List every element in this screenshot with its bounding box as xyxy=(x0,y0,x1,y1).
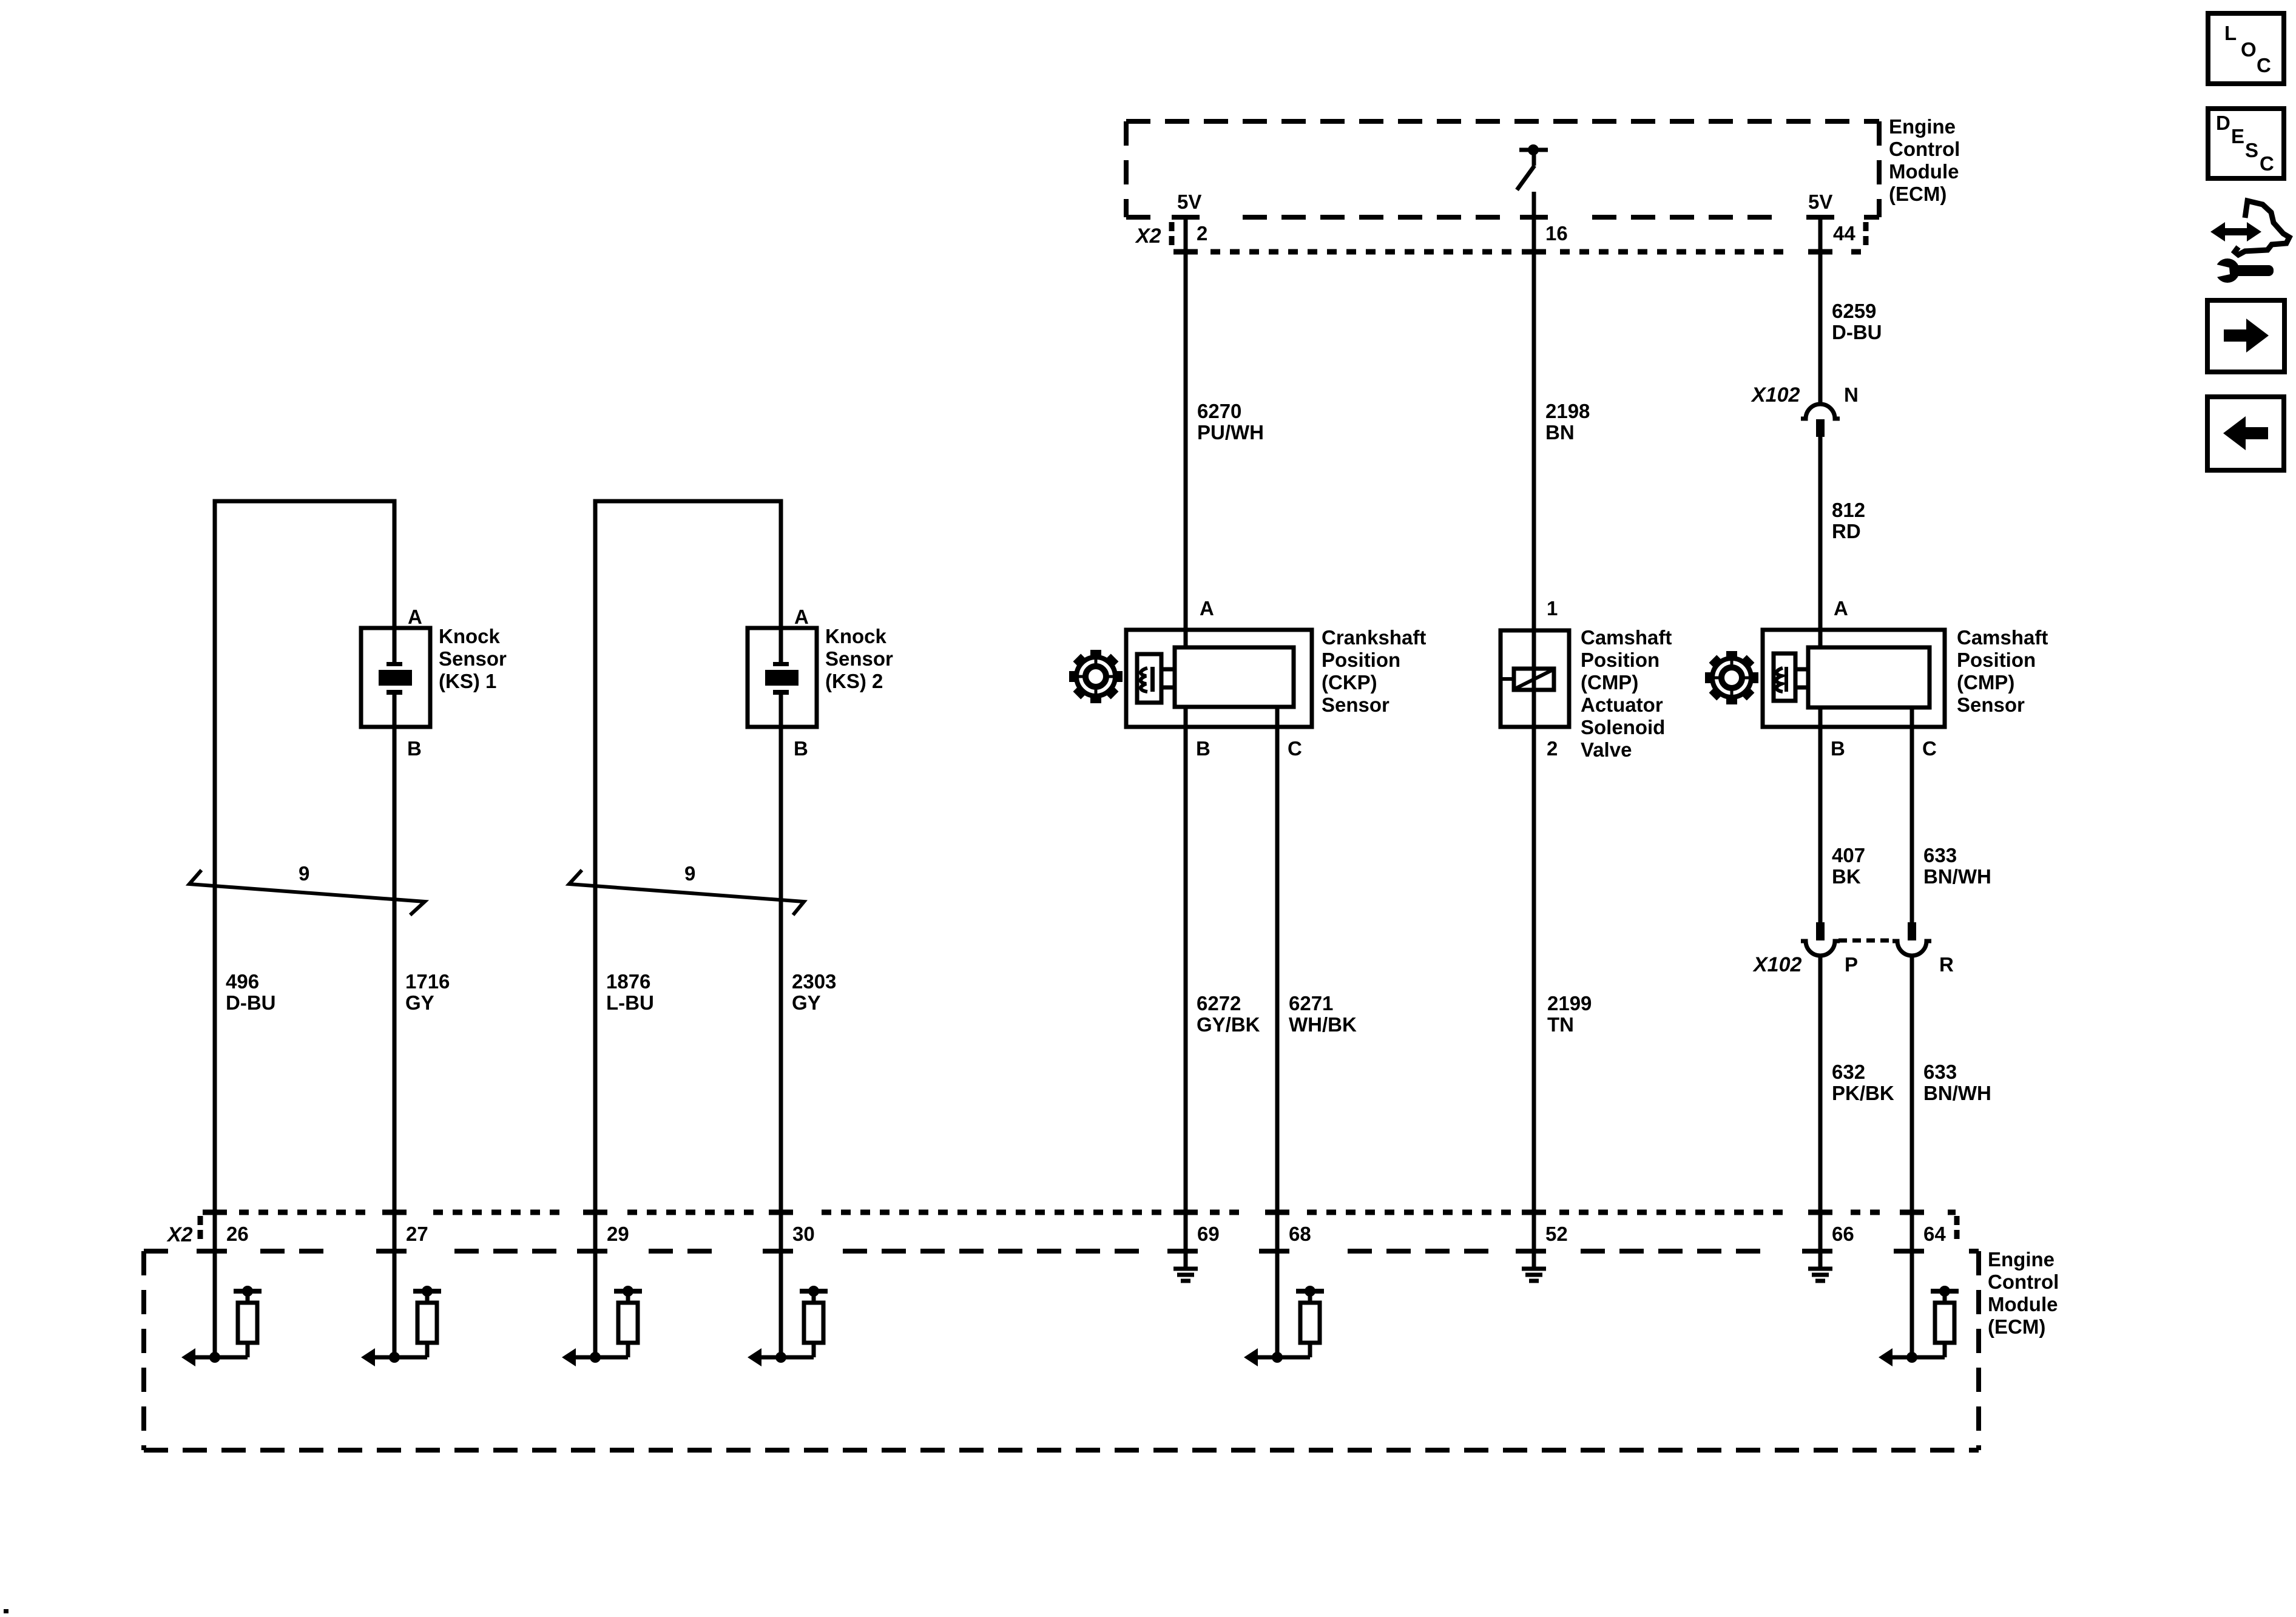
ECM (Engine Control Module) bottom dashed box xyxy=(144,1249,168,1254)
svg-text:A: A xyxy=(794,606,809,628)
svg-text:5V: 5V xyxy=(1808,191,1832,213)
adjust/hand-wrench icon xyxy=(2210,222,2261,241)
wire into ECM at x=354 xyxy=(213,1212,217,1357)
svg-text:16: 16 xyxy=(1545,222,1568,245)
svg-text:5V: 5V xyxy=(1177,191,1201,213)
wire into ECM at x=650 xyxy=(393,1212,397,1357)
svg-text:PK/BK: PK/BK xyxy=(1832,1082,1894,1104)
svg-text:633: 633 xyxy=(1923,1061,1957,1083)
svg-text:Engine: Engine xyxy=(1988,1248,2055,1271)
svg-text:B: B xyxy=(1831,737,1845,760)
svg-text:Valve: Valve xyxy=(1581,738,1632,761)
ECM internal resistor + signal arrow (wire x=650) xyxy=(361,1286,441,1366)
CKP pickup element xyxy=(1137,654,1161,703)
svg-text:2303: 2303 xyxy=(792,970,836,993)
svg-text:29: 29 xyxy=(607,1223,629,1245)
in-line connector X102 pin P xyxy=(1816,922,1825,940)
ground (ECM internal) at x=1954 xyxy=(1173,1269,1198,1281)
CKP pickup squiggle xyxy=(1141,668,1147,692)
wire into ECM at x=3000 xyxy=(1818,1212,1823,1267)
svg-text:GY: GY xyxy=(792,991,821,1014)
svg-text:6271: 6271 xyxy=(1289,992,1333,1014)
page period mark xyxy=(4,1609,8,1613)
svg-text:Control: Control xyxy=(1988,1271,2059,1293)
ECM internal resistor + signal arrow (wire x=1287) xyxy=(748,1286,828,1366)
svg-text:496: 496 xyxy=(226,970,259,993)
wire 2198 BN / 2199 TN (switch to CMP actuator to ECM pin 52) xyxy=(1532,192,1536,1267)
twisted pair symbol (KS2 circuit 9) xyxy=(569,870,804,915)
svg-text:(CMP): (CMP) xyxy=(1581,671,1638,694)
svg-text:X2: X2 xyxy=(1135,224,1161,248)
svg-text:44: 44 xyxy=(1833,222,1855,245)
svg-text:Control: Control xyxy=(1889,138,1960,160)
Camshaft Position (CMP) Sensor outer box xyxy=(1763,630,1945,727)
svg-text:R: R xyxy=(1939,953,1954,976)
wire 6259 D-BU (ECM pin 44 to X102 N) xyxy=(1818,217,1823,405)
svg-text:52: 52 xyxy=(1545,1223,1568,1245)
Knock Sensor (KS) 1 box xyxy=(361,628,430,727)
wire 1716 GY (KS1 B to ECM pin 27) xyxy=(393,695,397,1212)
svg-text:GY/BK: GY/BK xyxy=(1197,1013,1260,1036)
CMP sensor body xyxy=(1808,647,1930,707)
wire 633 BN/WH (X102 R to ECM pin 64) xyxy=(1910,956,1914,1357)
svg-text:(CKP): (CKP) xyxy=(1322,671,1377,694)
svg-text:Position: Position xyxy=(1581,649,1660,671)
svg-text:633: 633 xyxy=(1923,844,1957,866)
svg-text:BN/WH: BN/WH xyxy=(1923,865,1991,888)
CMP pickup stub (lower) xyxy=(1795,686,1808,690)
Camshaft Position (CMP) Actuator Solenoid Valve box xyxy=(1501,630,1569,727)
svg-text:D-BU: D-BU xyxy=(1832,321,1882,343)
svg-text:X102: X102 xyxy=(1752,953,1801,976)
wire 496 D-BU loop (ECM pin 26 to KS1 A) xyxy=(215,501,394,1212)
wire 633 BN/WH (CMP C to X102 R) xyxy=(1910,707,1914,922)
CKP pickup bar xyxy=(1150,667,1155,692)
CKP pickup stub (upper) xyxy=(1161,667,1175,672)
svg-text:6259: 6259 xyxy=(1832,300,1876,322)
svg-text:D: D xyxy=(2216,112,2230,134)
svg-text:Knock: Knock xyxy=(825,625,887,647)
svg-text:26: 26 xyxy=(226,1223,249,1245)
back arrow icon box xyxy=(2207,397,2284,470)
svg-text:1876: 1876 xyxy=(606,970,650,993)
svg-text:9: 9 xyxy=(684,862,695,885)
wire 1876 L-BU loop (ECM pin 29 to KS2 A) xyxy=(595,501,781,1212)
switch (ECM internal driver) for CMP actuator control xyxy=(1519,148,1548,152)
CKP pickup stub (lower) xyxy=(1161,686,1175,690)
svg-text:PU/WH: PU/WH xyxy=(1197,421,1264,444)
X2 connector strip (bottom) xyxy=(198,1216,203,1243)
svg-text:O: O xyxy=(2241,38,2257,61)
CMP pickup bar xyxy=(1784,667,1788,692)
svg-text:GY: GY xyxy=(405,991,434,1014)
svg-text:C: C xyxy=(2257,54,2271,76)
svg-text:Sensor: Sensor xyxy=(1957,694,2025,716)
wire into ECM at x=981 xyxy=(593,1212,598,1357)
svg-text:A: A xyxy=(1834,597,1848,619)
svg-text:A: A xyxy=(1200,597,1214,619)
CMP pickup element xyxy=(1774,653,1795,701)
svg-text:30: 30 xyxy=(792,1223,815,1245)
svg-text:BN: BN xyxy=(1545,421,1575,444)
svg-text:6272: 6272 xyxy=(1197,992,1241,1014)
svg-text:632: 632 xyxy=(1832,1061,1865,1083)
DESC icon box xyxy=(2208,109,2284,178)
wire into ECM at x=2105 xyxy=(1275,1212,1280,1357)
wire into ECM at x=1954 xyxy=(1184,1212,1188,1267)
svg-text:Camshaft: Camshaft xyxy=(1957,626,2048,649)
svg-text:Sensor: Sensor xyxy=(1322,694,1389,716)
svg-text:(CMP): (CMP) xyxy=(1957,671,2014,694)
svg-text:RD: RD xyxy=(1832,520,1861,542)
svg-text:407: 407 xyxy=(1832,844,1865,866)
svg-text:TN: TN xyxy=(1547,1013,1574,1036)
svg-text:812: 812 xyxy=(1832,499,1865,521)
svg-text:L: L xyxy=(2224,22,2237,44)
Knock Sensor (KS) 2 box xyxy=(748,628,817,727)
svg-text:Engine: Engine xyxy=(1889,115,1956,138)
svg-text:Position: Position xyxy=(1957,649,2036,671)
ECM internal resistor + signal arrow (wire x=2105) xyxy=(1244,1286,1324,1366)
svg-text:(ECM): (ECM) xyxy=(1889,183,1947,205)
svg-text:68: 68 xyxy=(1289,1223,1311,1245)
wire into ECM at x=1287 xyxy=(779,1212,783,1357)
svg-text:66: 66 xyxy=(1832,1223,1854,1245)
svg-text:1: 1 xyxy=(1547,597,1558,619)
wire 407 BK (CMP B to X102 P) xyxy=(1818,707,1823,922)
svg-text:WH/BK: WH/BK xyxy=(1289,1013,1357,1036)
svg-text:C: C xyxy=(1288,737,1302,760)
forward arrow icon box xyxy=(2207,300,2284,372)
svg-text:Knock: Knock xyxy=(439,625,501,647)
svg-text:C: C xyxy=(2260,152,2274,175)
svg-text:Crankshaft: Crankshaft xyxy=(1322,626,1426,649)
svg-text:69: 69 xyxy=(1197,1223,1220,1245)
Crankshaft Position (CKP) Sensor outer box xyxy=(1126,630,1312,727)
svg-text:(KS) 1: (KS) 1 xyxy=(439,670,496,692)
svg-text:Actuator: Actuator xyxy=(1581,694,1663,716)
svg-text:Sensor: Sensor xyxy=(825,647,893,670)
solenoid valve symbol xyxy=(1514,669,1554,690)
wire 6270 PU/WH (ECM pin 2 to CKP sensor A) xyxy=(1184,217,1188,649)
ground (ECM internal) at x=3000 xyxy=(1808,1269,1832,1281)
svg-text:64: 64 xyxy=(1923,1223,1946,1245)
svg-text:P: P xyxy=(1845,953,1858,976)
svg-text:X102: X102 xyxy=(1751,383,1800,407)
wire 632 PK/BK (X102 P to ECM pin 66) xyxy=(1818,956,1823,1267)
in-line connector X102 pin N xyxy=(1801,404,1840,419)
wire into ECM at x=3151 xyxy=(1910,1212,1914,1357)
twisted pair symbol (KS1 circuit 9) xyxy=(189,870,425,915)
ECM (Engine Control Module) top dashed box xyxy=(1126,119,1879,124)
svg-text:Module: Module xyxy=(1988,1293,2058,1315)
svg-text:BK: BK xyxy=(1832,865,1861,888)
svg-text:B: B xyxy=(1196,737,1210,760)
wire 812 RD (X102 N to CMP sensor A) xyxy=(1818,437,1823,649)
ECM internal resistor + signal arrow (wire x=981) xyxy=(562,1286,642,1366)
ECM internal resistor + signal arrow (wire x=3151) xyxy=(1879,1286,1959,1366)
KS2 piezo element xyxy=(765,662,799,695)
svg-text:S: S xyxy=(2245,139,2258,161)
ECM internal resistor + signal arrow (wire x=354) xyxy=(181,1286,262,1366)
svg-text:BN/WH: BN/WH xyxy=(1923,1082,1991,1104)
svg-text:2198: 2198 xyxy=(1545,400,1590,422)
svg-text:X2: X2 xyxy=(166,1223,193,1246)
svg-text:27: 27 xyxy=(406,1223,428,1245)
gear icon (crankshaft reluctor wheel) xyxy=(1069,650,1123,703)
svg-text:6270: 6270 xyxy=(1197,400,1241,422)
svg-text:Sensor: Sensor xyxy=(439,647,507,670)
X2 connector strip (top) xyxy=(1169,222,1175,249)
svg-text:C: C xyxy=(1922,737,1937,760)
in-line connector X102 pin R xyxy=(1908,922,1916,940)
gear icon (camshaft reluctor wheel) xyxy=(1705,651,1758,704)
CKP sensor body xyxy=(1175,647,1294,707)
svg-text:(ECM): (ECM) xyxy=(1988,1315,2045,1338)
LOC icon box xyxy=(2208,13,2284,84)
svg-text:1716: 1716 xyxy=(405,970,450,993)
ground (ECM internal) at x=2528 xyxy=(1522,1269,1546,1281)
svg-text:(KS) 2: (KS) 2 xyxy=(825,670,883,692)
CMP pickup squiggle xyxy=(1777,668,1783,692)
svg-text:Camshaft: Camshaft xyxy=(1581,626,1672,649)
svg-text:2: 2 xyxy=(1197,222,1207,245)
svg-text:B: B xyxy=(794,737,808,760)
wire 2303 GY (KS2 B to ECM pin 30) xyxy=(779,695,783,1212)
svg-text:D-BU: D-BU xyxy=(226,991,275,1014)
KS1 piezo element xyxy=(379,662,412,695)
svg-text:2: 2 xyxy=(1547,737,1558,760)
wire 6271 WH/BK (CKP C to ECM pin 68) xyxy=(1275,707,1280,1357)
svg-text:L-BU: L-BU xyxy=(606,991,654,1014)
CMP pickup stub (upper) xyxy=(1795,667,1808,672)
svg-text:E: E xyxy=(2231,125,2244,147)
svg-text:Position: Position xyxy=(1322,649,1400,671)
svg-text:B: B xyxy=(407,737,422,760)
svg-text:Solenoid: Solenoid xyxy=(1581,716,1665,738)
svg-text:Module: Module xyxy=(1889,160,1959,183)
wire 6272 GY/BK (CKP B to ECM pin 69) xyxy=(1184,707,1188,1267)
X102 connector tie line xyxy=(1838,939,1894,943)
svg-text:N: N xyxy=(1844,383,1859,406)
svg-text:9: 9 xyxy=(299,862,309,885)
svg-text:2199: 2199 xyxy=(1547,992,1592,1014)
svg-text:A: A xyxy=(408,606,422,628)
